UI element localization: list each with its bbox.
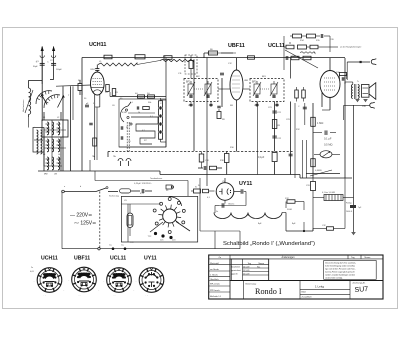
svg-text:Sicherung: Sicherung [109,195,120,198]
svg-text:bearbeitet: bearbeitet [232,266,241,269]
svg-text:Hochantenne: Hochantenne [22,99,25,112]
svg-text:Tr: Tr [357,81,359,83]
svg-text:2M: 2M [140,98,143,100]
svg-text:0,1μF: 0,1μF [258,156,265,159]
svg-text:50k: 50k [148,102,151,104]
svg-text:liche Genehmigung weder vervie: liche Genehmigung weder vervielfäl- [325,265,355,268]
svg-text:LW: LW [54,174,57,176]
svg-text:Name: Name [259,263,265,265]
svg-text:1k: 1k [138,112,140,114]
svg-text:UCL11: UCL11 [110,256,126,262]
svg-text:Maßstab 1:1: Maßstab 1:1 [210,295,222,298]
svg-text:· ··: · ·· [78,295,81,297]
svg-text:Name: Name [365,257,372,259]
svg-text:Zusatzblatt:: Zusatzblatt: [302,295,313,298]
svg-text:UCL11: UCL11 [268,43,285,49]
svg-text:NTC: NTC [285,198,290,200]
svg-text:Dr: Dr [216,211,218,213]
svg-text:0,1 bis 1,0 MΩ: 0,1 bis 1,0 MΩ [322,192,335,194]
svg-text:UY11: UY11 [239,181,252,187]
svg-text:Diese Zeichnung darf ohne ausd: Diese Zeichnung darf ohne ausdrück- [325,262,356,265]
svg-text:2x: 2x [31,267,33,269]
svg-text:tigt, noch dritten Personen od: tigt, noch dritten Personen oder Kon- [325,268,356,271]
svg-text:Tonabnehmer: Tonabnehmer [150,178,163,180]
svg-text:UY11: UY11 [144,256,157,262]
svg-text:0,25μF 125/220V~: 0,25μF 125/220V~ [134,183,153,185]
svg-text:BF3: BF3 [252,81,257,84]
svg-text:strafrechtlich verfolgt.: strafrechtlich verfolgt. [325,276,343,279]
svg-text:24.5.49: 24.5.49 [243,267,249,269]
svg-text:· ··: · ·· [146,296,149,298]
svg-text:Gleichr.: Gleichr. [228,203,235,205]
svg-text:4Θ: 4Θ [135,93,138,95]
svg-text:5Θ: 5Θ [147,93,150,95]
svg-text:1 MΩ: 1 MΩ [317,121,323,125]
svg-text:werden. Zuwiderhandlungen werd: werden. Zuwiderhandlungen werden [325,273,355,276]
svg-text:SU7: SU7 [354,286,368,294]
svg-text:PPF besch.: PPF besch. [210,290,221,292]
svg-text:n. Bearb.: n. Bearb. [210,275,219,277]
svg-text:Änderungen: Änderungen [281,256,295,259]
svg-text:500Ω: 500Ω [287,209,292,211]
svg-text:25.5.49: 25.5.49 [243,274,249,276]
svg-text:an den Klangfarbenregler: an den Klangfarbenregler [340,46,362,49]
svg-text:Schaltbild „Rondo I’ („Wunderl: Schaltbild „Rondo I’ („Wunderland“) [223,241,315,247]
svg-text:0,5 MΩ: 0,5 MΩ [324,143,332,147]
svg-text:geprüft: geprüft [232,273,238,276]
svg-text:25.5.49: 25.5.49 [243,270,249,272]
svg-text:1 Leitg: 1 Leitg [315,285,324,289]
svg-text:5k: 5k [126,127,128,129]
svg-text:0,1 μF: 0,1 μF [324,137,332,141]
svg-text:Feldsp.: Feldsp. [346,203,353,205]
svg-text:· ··: · ·· [44,296,47,298]
svg-text:0,5M: 0,5M [122,112,127,114]
svg-text:Benennung:: Benennung: [246,283,257,285]
svg-text:WF-schäm.: WF-schäm. [210,284,221,286]
svg-text:MW: MW [44,174,48,176]
svg-text:0,5MΩ: 0,5MΩ [315,170,322,172]
svg-text:Zeichnungs-Nr.: Zeichnungs-Nr. [353,281,366,284]
svg-text:UCH11: UCH11 [41,256,58,262]
svg-text:— 220V≂: — 220V≂ [70,213,92,219]
svg-text:Oberfläch.: Oberfläch. [210,279,220,281]
svg-text:· ··: · ·· [113,296,116,298]
svg-text:UBF11: UBF11 [228,43,245,49]
svg-text:⁓ 125V≂: ⁓ 125V≂ [74,221,96,227]
svg-text:100pF: 100pF [56,69,62,71]
svg-text:30pF: 30pF [33,66,38,68]
svg-text:vor Bearb.: vor Bearb. [210,269,220,271]
svg-text:2000 Ω: 2000 Ω [346,211,353,213]
svg-text:Rondo I: Rondo I [255,287,282,296]
svg-text:UBF11: UBF11 [74,256,90,262]
svg-text:BF2: BF2 [186,81,191,84]
svg-text:Blatt:: Blatt: [302,290,307,293]
svg-text:Sig.: Sig. [257,267,261,269]
svg-text:UCH11: UCH11 [89,42,106,48]
svg-text:gezeichnet: gezeichnet [232,269,242,272]
svg-text:Werkstoff: Werkstoff [210,262,219,265]
svg-text:kurrenz-Firmen zugänglich gema: kurrenz-Firmen zugänglich gemacht [325,270,355,273]
